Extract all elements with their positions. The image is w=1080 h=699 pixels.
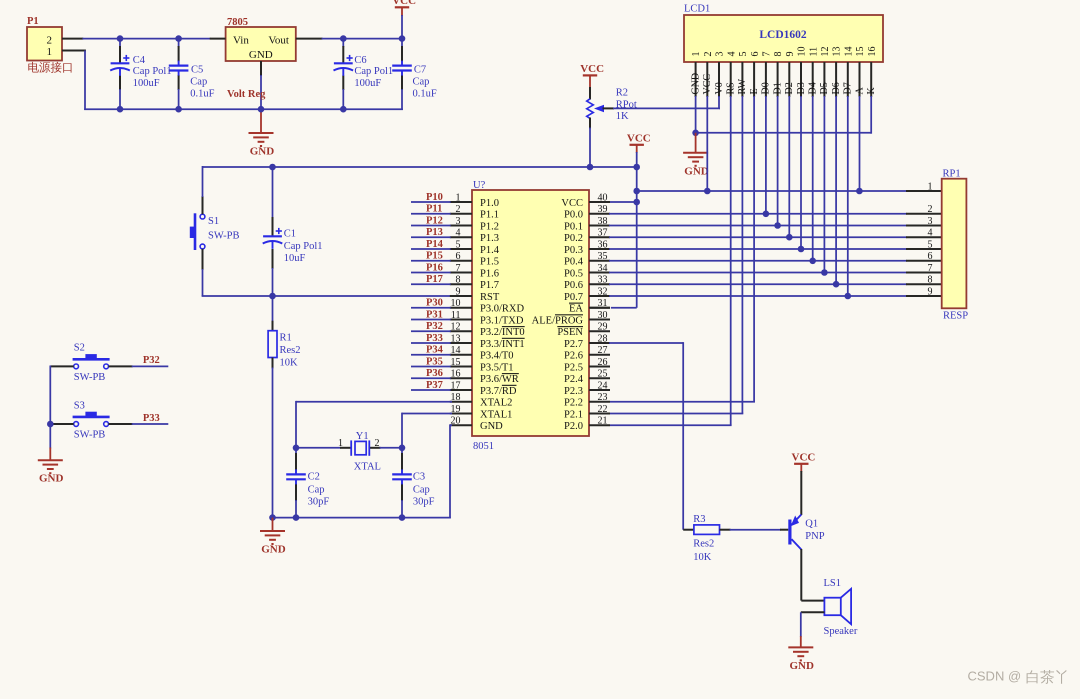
svg-text:Res2: Res2 — [280, 345, 301, 356]
svg-text:P32: P32 — [143, 355, 160, 366]
svg-text:2: 2 — [928, 204, 933, 215]
svg-text:12: 12 — [451, 322, 461, 333]
svg-text:P2.3: P2.3 — [564, 386, 583, 397]
svg-text:10uF: 10uF — [284, 253, 306, 264]
svg-text:D1: D1 — [772, 82, 783, 94]
svg-text:XTAL1: XTAL1 — [480, 409, 512, 420]
svg-text:Cap: Cap — [413, 77, 430, 88]
svg-text:D2: D2 — [784, 82, 795, 94]
svg-text:5: 5 — [928, 239, 933, 250]
svg-text:9: 9 — [928, 286, 933, 297]
svg-text:P2.0: P2.0 — [564, 421, 583, 432]
svg-text:Vout: Vout — [268, 35, 289, 47]
svg-text:Cap Pol1: Cap Pol1 — [284, 241, 323, 252]
svg-text:38: 38 — [598, 216, 608, 227]
svg-text:EA: EA — [569, 304, 583, 315]
svg-text:7: 7 — [762, 52, 773, 57]
svg-text:P0.5: P0.5 — [564, 268, 583, 279]
svg-text:1: 1 — [691, 52, 702, 57]
svg-text:8: 8 — [456, 275, 461, 286]
svg-text:CSDN @: CSDN @ — [968, 669, 1022, 684]
svg-text:P1: P1 — [27, 16, 39, 27]
svg-text:26: 26 — [598, 357, 608, 368]
svg-text:30pF: 30pF — [413, 496, 435, 507]
svg-text:P1.0: P1.0 — [480, 198, 499, 209]
svg-text:P0.3: P0.3 — [564, 245, 583, 256]
svg-text:27: 27 — [598, 345, 608, 356]
svg-text:P2.7: P2.7 — [564, 339, 583, 350]
svg-text:11: 11 — [808, 47, 819, 57]
svg-text:LS1: LS1 — [824, 578, 842, 589]
svg-text:PSEN: PSEN — [557, 327, 583, 338]
svg-text:1: 1 — [47, 46, 53, 58]
svg-text:1: 1 — [456, 192, 461, 203]
svg-text:GND: GND — [250, 146, 275, 158]
svg-text:15: 15 — [451, 357, 461, 368]
svg-text:2: 2 — [47, 34, 53, 46]
svg-text:10K: 10K — [693, 552, 712, 563]
svg-text:D0: D0 — [761, 82, 772, 94]
svg-text:P1.7: P1.7 — [480, 280, 499, 291]
svg-text:VCC: VCC — [561, 198, 583, 209]
svg-text:P1.4: P1.4 — [480, 245, 500, 256]
svg-text:D6: D6 — [831, 82, 842, 94]
svg-text:VCC: VCC — [702, 74, 713, 95]
svg-text:9: 9 — [456, 286, 461, 297]
svg-text:0.1uF: 0.1uF — [413, 89, 437, 100]
svg-text:ALE/PROG: ALE/PROG — [532, 315, 584, 326]
svg-text:E: E — [749, 88, 760, 94]
svg-text:GND: GND — [480, 421, 503, 432]
svg-text:P0.1: P0.1 — [564, 221, 583, 232]
svg-text:P0.7: P0.7 — [564, 292, 583, 303]
svg-text:6: 6 — [750, 52, 761, 57]
svg-text:10: 10 — [451, 298, 461, 309]
svg-text:P12: P12 — [426, 215, 443, 226]
svg-text:VCC: VCC — [627, 133, 651, 145]
svg-text:23: 23 — [598, 392, 608, 403]
svg-text:V0: V0 — [714, 82, 725, 94]
svg-text:VCC: VCC — [580, 63, 604, 75]
svg-text:14: 14 — [843, 47, 854, 57]
svg-text:Res2: Res2 — [693, 538, 714, 549]
svg-text:D7: D7 — [843, 82, 854, 94]
svg-text:13: 13 — [832, 47, 843, 57]
svg-text:21: 21 — [598, 416, 608, 427]
svg-text:25: 25 — [598, 369, 608, 380]
svg-text:P1.3: P1.3 — [480, 233, 499, 244]
svg-text:RST: RST — [480, 292, 500, 303]
svg-text:P33: P33 — [143, 413, 160, 424]
svg-text:16: 16 — [867, 47, 878, 57]
svg-text:4: 4 — [726, 52, 737, 57]
svg-text:33: 33 — [598, 275, 608, 286]
svg-text:Cap: Cap — [190, 77, 207, 88]
svg-text:Speaker: Speaker — [824, 626, 858, 637]
svg-text:34: 34 — [598, 263, 608, 274]
svg-text:30: 30 — [598, 310, 608, 321]
svg-text:32: 32 — [598, 286, 608, 297]
svg-text:R1: R1 — [280, 333, 292, 344]
svg-text:P30: P30 — [426, 298, 443, 309]
svg-text:1: 1 — [928, 181, 933, 192]
svg-text:S1: S1 — [208, 216, 219, 227]
svg-text:LCD1602: LCD1602 — [759, 29, 807, 41]
svg-text:R2: R2 — [616, 87, 628, 98]
svg-text:3: 3 — [928, 216, 933, 227]
svg-text:Cap: Cap — [413, 484, 430, 495]
svg-text:24: 24 — [598, 380, 608, 391]
svg-text:8: 8 — [928, 275, 933, 286]
svg-text:GND: GND — [684, 165, 709, 177]
svg-text:SW-PB: SW-PB — [74, 430, 106, 441]
svg-text:Cap Pol1: Cap Pol1 — [133, 66, 172, 77]
svg-text:P3.7/RD: P3.7/RD — [480, 386, 517, 397]
svg-text:P3.5/T1: P3.5/T1 — [480, 362, 514, 373]
svg-text:RPot: RPot — [616, 99, 637, 110]
svg-text:GND: GND — [39, 473, 64, 485]
svg-text:P3.3/INT1: P3.3/INT1 — [480, 339, 525, 350]
svg-text:P0.6: P0.6 — [564, 280, 583, 291]
svg-text:4: 4 — [928, 228, 933, 239]
svg-text:P0.2: P0.2 — [564, 233, 583, 244]
svg-text:35: 35 — [598, 251, 608, 262]
svg-text:P0.4: P0.4 — [564, 257, 584, 268]
svg-text:Cap Pol1: Cap Pol1 — [354, 66, 393, 77]
svg-text:31: 31 — [598, 298, 608, 309]
svg-text:7805: 7805 — [227, 17, 248, 28]
svg-text:22: 22 — [598, 404, 608, 415]
svg-text:GND: GND — [249, 49, 273, 61]
svg-text:GND: GND — [790, 660, 815, 672]
svg-text:P3.1/TXD: P3.1/TXD — [480, 315, 524, 326]
svg-text:Volt Reg: Volt Reg — [227, 89, 266, 100]
svg-text:C4: C4 — [133, 55, 146, 66]
svg-text:U?: U? — [473, 180, 486, 191]
svg-text:C1: C1 — [284, 229, 296, 240]
svg-text:100uF: 100uF — [133, 78, 160, 89]
svg-text:GND: GND — [261, 544, 286, 556]
svg-text:RS: RS — [726, 82, 737, 94]
svg-text:RESP: RESP — [943, 311, 968, 322]
svg-text:SW-PB: SW-PB — [208, 231, 240, 242]
svg-text:39: 39 — [598, 204, 608, 215]
svg-text:Cap: Cap — [308, 484, 325, 495]
svg-text:P31: P31 — [426, 309, 443, 320]
svg-text:28: 28 — [598, 333, 608, 344]
svg-text:15: 15 — [855, 47, 866, 57]
svg-text:VCC: VCC — [392, 0, 416, 7]
svg-text:7: 7 — [456, 263, 461, 274]
svg-text:P17: P17 — [426, 274, 443, 285]
svg-text:40: 40 — [598, 192, 608, 203]
svg-text:1K: 1K — [616, 111, 629, 122]
svg-text:36: 36 — [598, 239, 608, 250]
svg-text:P2.1: P2.1 — [564, 409, 583, 420]
svg-text:10: 10 — [797, 47, 808, 57]
svg-text:P34: P34 — [426, 345, 444, 356]
svg-text:7: 7 — [928, 263, 933, 274]
svg-text:3: 3 — [456, 216, 461, 227]
svg-text:12: 12 — [820, 47, 831, 57]
svg-text:P37: P37 — [426, 380, 443, 391]
svg-text:P2.4: P2.4 — [564, 374, 584, 385]
svg-text:A: A — [854, 87, 865, 95]
svg-text:10K: 10K — [280, 358, 299, 369]
svg-text:P11: P11 — [426, 204, 442, 215]
svg-text:P0.0: P0.0 — [564, 210, 583, 221]
svg-text:11: 11 — [451, 310, 461, 321]
svg-text:XTAL: XTAL — [354, 461, 381, 472]
svg-text:P35: P35 — [426, 356, 443, 367]
svg-text:RP1: RP1 — [943, 169, 961, 180]
svg-text:C3: C3 — [413, 472, 425, 483]
svg-text:D3: D3 — [796, 82, 807, 94]
svg-text:P3.2/INT0: P3.2/INT0 — [480, 327, 525, 338]
svg-text:2: 2 — [375, 438, 380, 449]
svg-text:P3.4/T0: P3.4/T0 — [480, 351, 514, 362]
svg-text:P10: P10 — [426, 192, 443, 203]
svg-text:17: 17 — [451, 380, 461, 391]
svg-text:D5: D5 — [819, 82, 830, 94]
svg-text:14: 14 — [451, 345, 461, 356]
svg-text:29: 29 — [598, 322, 608, 333]
svg-text:1: 1 — [338, 438, 343, 449]
svg-text:5: 5 — [456, 239, 461, 250]
svg-text:Vin: Vin — [233, 35, 249, 47]
svg-text:S2: S2 — [74, 343, 85, 354]
svg-text:30pF: 30pF — [308, 496, 330, 507]
svg-text:P32: P32 — [426, 321, 443, 332]
svg-text:P3.0/RXD: P3.0/RXD — [480, 304, 524, 315]
svg-text:3: 3 — [715, 52, 726, 57]
svg-text:2: 2 — [703, 52, 714, 57]
svg-text:8: 8 — [773, 52, 784, 57]
svg-text:C7: C7 — [414, 65, 426, 76]
svg-text:8051: 8051 — [473, 441, 494, 452]
svg-text:P2.6: P2.6 — [564, 351, 583, 362]
svg-text:P1.1: P1.1 — [480, 210, 499, 221]
svg-text:R3: R3 — [693, 514, 705, 525]
svg-text:PNP: PNP — [805, 531, 824, 542]
svg-text:37: 37 — [598, 228, 608, 239]
svg-text:16: 16 — [451, 369, 461, 380]
svg-text:4: 4 — [456, 228, 461, 239]
svg-text:C5: C5 — [191, 65, 203, 76]
svg-text:C2: C2 — [308, 472, 320, 483]
svg-text:P3.6/WR: P3.6/WR — [480, 374, 519, 385]
svg-text:P16: P16 — [426, 262, 443, 273]
svg-text:Q1: Q1 — [805, 518, 818, 529]
svg-text:P15: P15 — [426, 251, 443, 262]
svg-text:6: 6 — [456, 251, 461, 262]
svg-text:P14: P14 — [426, 239, 444, 250]
svg-text:P1.5: P1.5 — [480, 257, 499, 268]
svg-text:9: 9 — [785, 52, 796, 57]
svg-text:P1.2: P1.2 — [480, 221, 499, 232]
svg-text:P2.5: P2.5 — [564, 362, 583, 373]
svg-text:2: 2 — [456, 204, 461, 215]
svg-text:XTAL2: XTAL2 — [480, 398, 512, 409]
svg-text:0.1uF: 0.1uF — [190, 89, 214, 100]
svg-text:Y1: Y1 — [356, 431, 369, 442]
svg-text:100uF: 100uF — [354, 78, 381, 89]
svg-text:13: 13 — [451, 333, 461, 344]
svg-text:LCD1: LCD1 — [684, 4, 710, 15]
svg-text:P33: P33 — [426, 333, 443, 344]
svg-text:RW: RW — [737, 78, 748, 94]
svg-text:VCC: VCC — [792, 452, 816, 464]
svg-text:P2.2: P2.2 — [564, 398, 583, 409]
svg-text:P1.6: P1.6 — [480, 268, 499, 279]
svg-text:5: 5 — [738, 52, 749, 57]
svg-text:P36: P36 — [426, 368, 443, 379]
svg-text:K: K — [866, 87, 877, 95]
svg-text:6: 6 — [928, 251, 933, 262]
svg-text:S3: S3 — [74, 401, 85, 412]
svg-text:GND: GND — [690, 73, 701, 95]
svg-text:D4: D4 — [808, 82, 819, 94]
svg-text:P13: P13 — [426, 227, 443, 238]
svg-text:SW-PB: SW-PB — [74, 372, 106, 383]
svg-text:C6: C6 — [354, 55, 366, 66]
